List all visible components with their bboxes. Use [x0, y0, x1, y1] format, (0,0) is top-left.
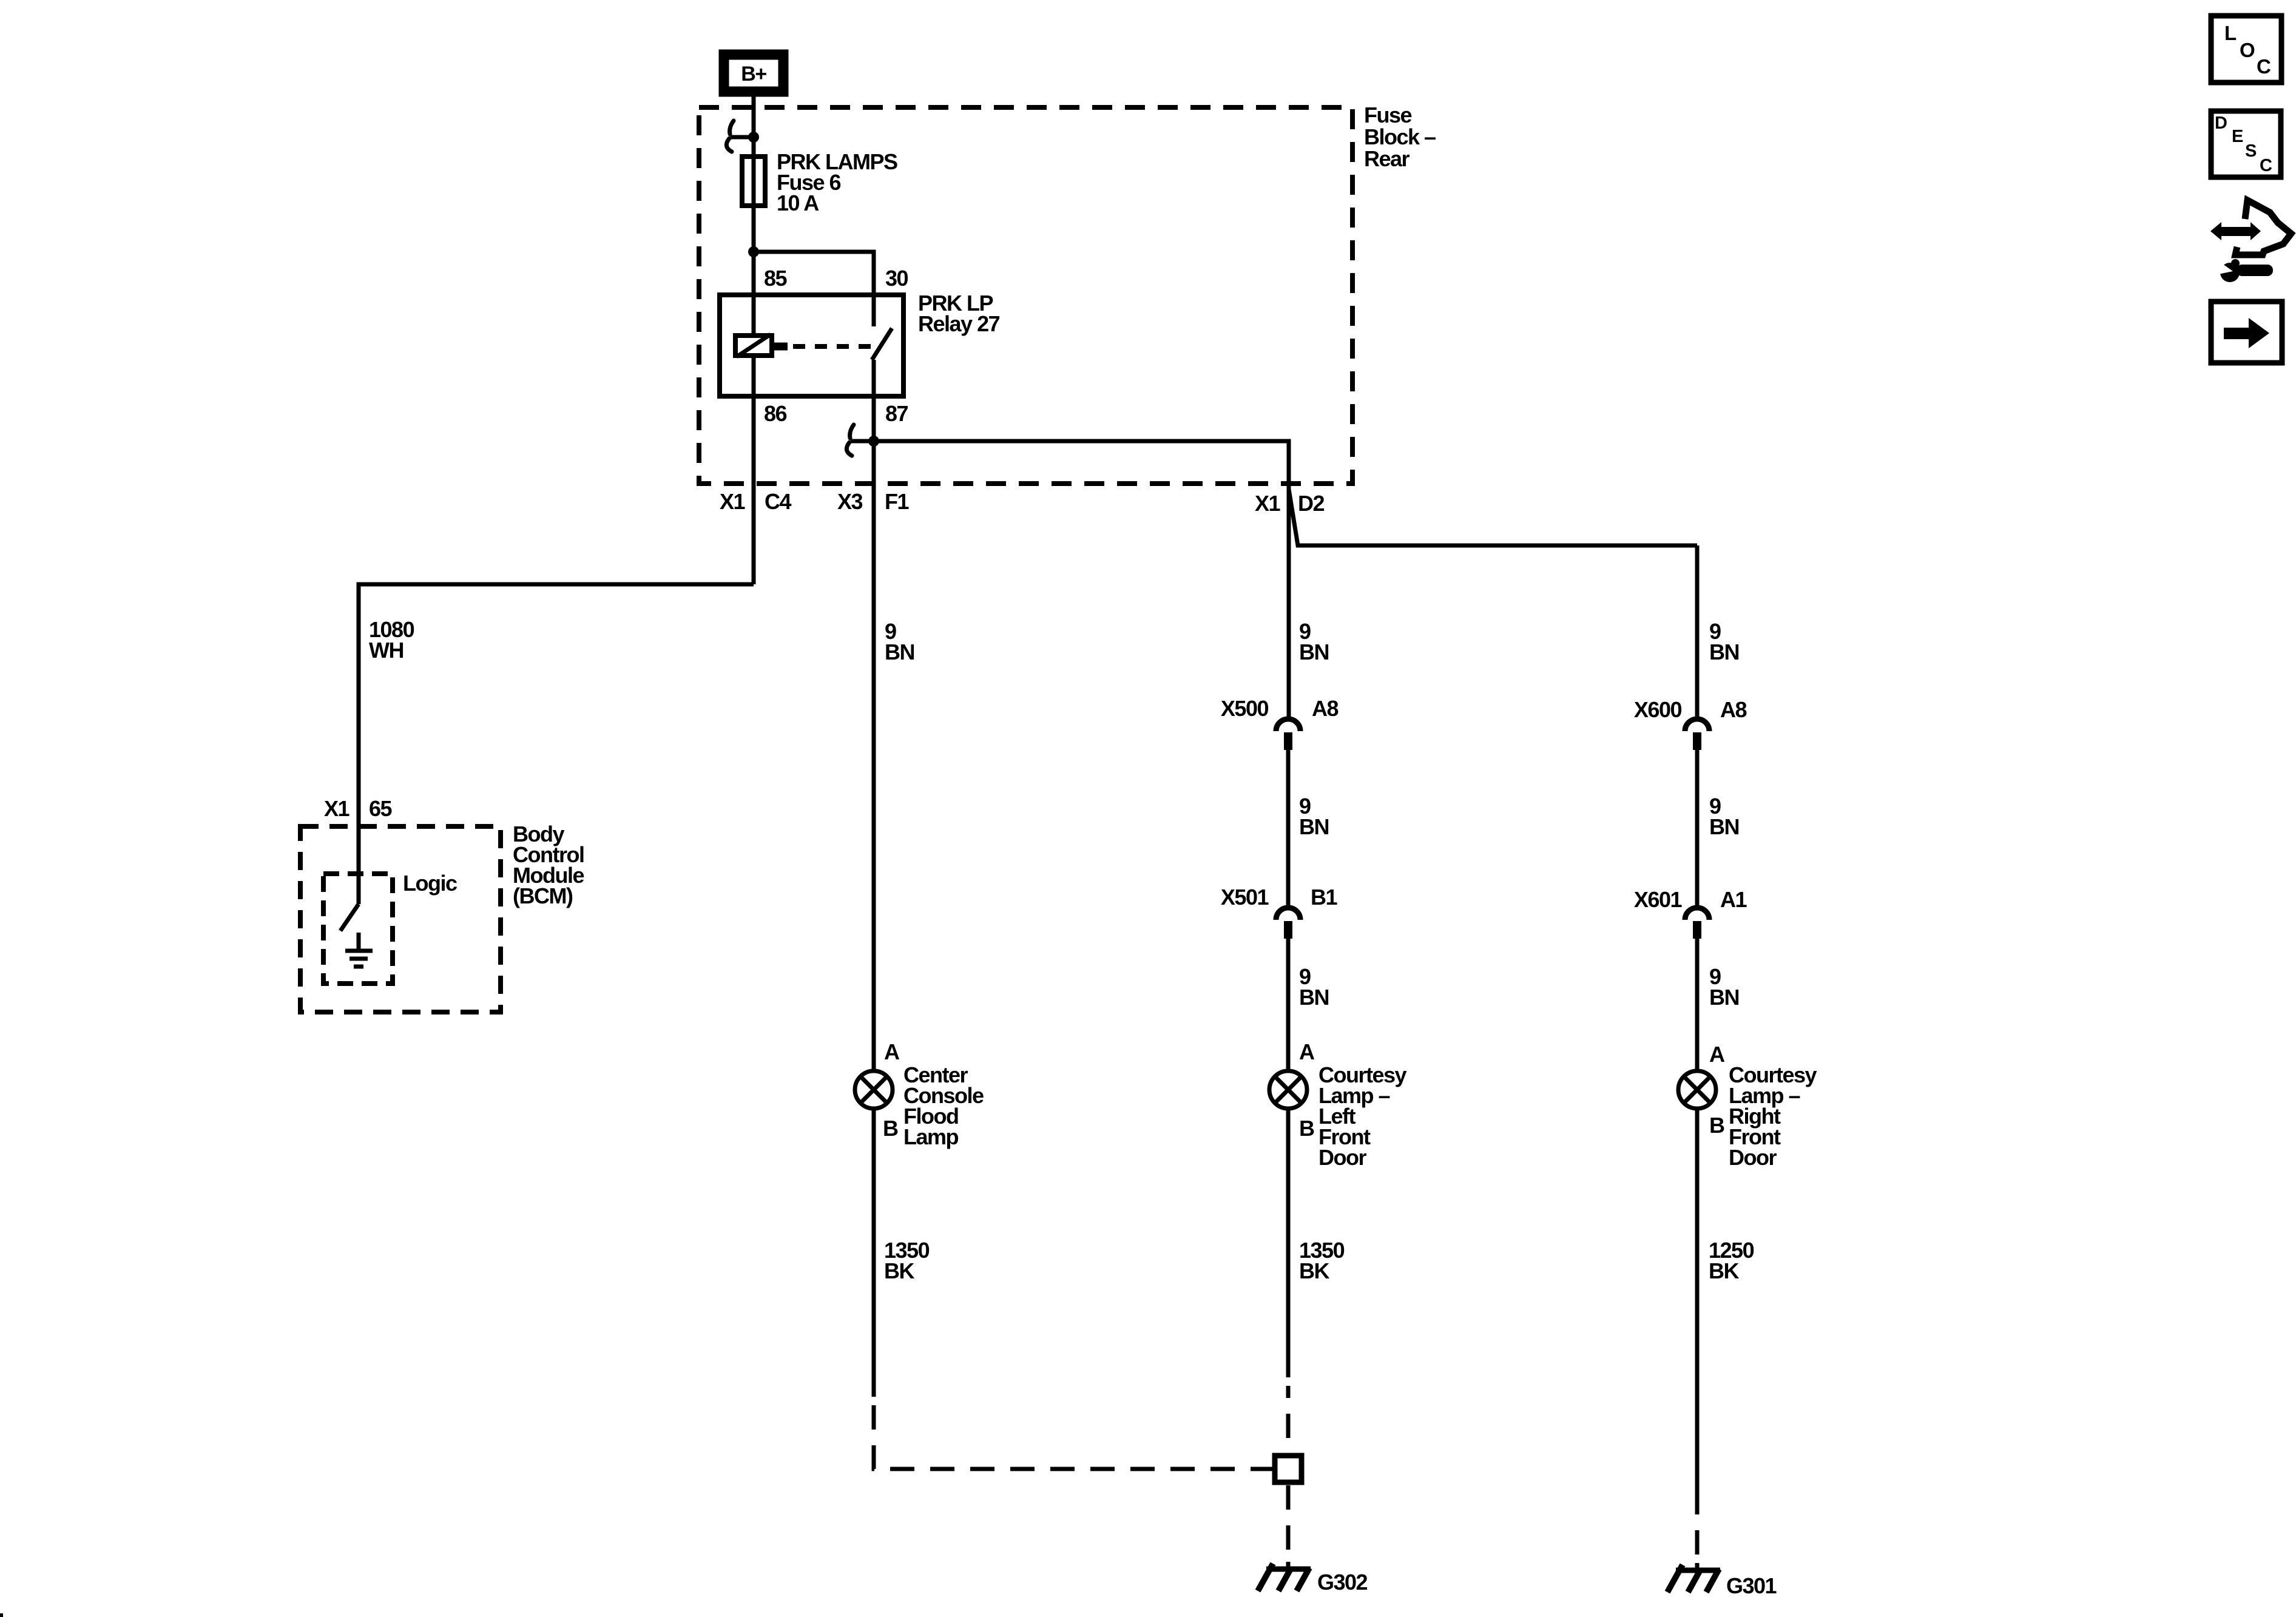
center console flood lamp [855, 1071, 893, 1109]
wire relay pin 87 down [872, 360, 876, 441]
svg-text:Door: Door [1729, 1145, 1777, 1170]
wire X1 C4 down-left to BCM [359, 584, 754, 904]
branch 1: wire F1 down to center console flood lamp [872, 441, 876, 1069]
svg-text:X501: X501 [1221, 885, 1269, 910]
ground G301 [1667, 1563, 1720, 1592]
wire lamp2 down [1286, 1110, 1291, 1377]
dashed wire splice to G302 [1286, 1485, 1291, 1562]
svg-text:(BCM): (BCM) [513, 883, 573, 908]
svg-text:O: O [2240, 39, 2255, 61]
svg-text:BN: BN [1709, 640, 1739, 664]
svg-text:BN: BN [1299, 814, 1329, 839]
svg-text:BN: BN [1709, 814, 1739, 839]
BCM internal ground [345, 933, 373, 967]
wire D2 down to left front door branch [1287, 489, 1291, 717]
svg-text:X3: X3 [837, 489, 863, 514]
svg-text:G302: G302 [1317, 1570, 1368, 1595]
relay switch blade [872, 328, 892, 360]
circuit 9 BN label mid branch3 [1709, 794, 1739, 839]
relay actuation link tab [774, 343, 788, 351]
next-section arrow icon box [2211, 302, 2282, 363]
svg-text:A: A [884, 1039, 900, 1064]
svg-text:E: E [2232, 127, 2243, 146]
courtesy lamp left front door [1269, 1071, 1307, 1109]
svg-text:X500: X500 [1221, 696, 1269, 721]
wire B+ down to fuse [752, 92, 756, 157]
circuit 9 BN label low branch2 [1299, 964, 1329, 1010]
connector X601 A1 labels [1634, 887, 1747, 912]
wire junction to relay pin 30 [754, 252, 874, 326]
svg-text:A: A [1299, 1039, 1315, 1064]
circuit 9 BN label branch1 [885, 619, 914, 664]
circuit 9 BN label low branch3 [1709, 964, 1739, 1010]
BCM switch blade [340, 904, 359, 931]
svg-text:BN: BN [1299, 640, 1329, 664]
svg-text:BN: BN [1709, 985, 1739, 1010]
center console flood lamp name [903, 1062, 984, 1149]
svg-text:65: 65 [369, 796, 393, 821]
junction dot above relay [748, 246, 759, 257]
repair instructions icon (arrow, terminal outline, wrench) [2210, 200, 2291, 282]
fuse block - rear dashed box [699, 107, 1352, 484]
svg-text:BK: BK [1709, 1258, 1739, 1283]
svg-text:BN: BN [885, 640, 914, 664]
circuit 1080 WH label [369, 617, 414, 663]
svg-text:B1: B1 [1311, 885, 1337, 910]
svg-text:A8: A8 [1312, 696, 1338, 721]
circuit 9 BN label above X600 [1709, 619, 1739, 664]
wire fuse to junction [752, 206, 756, 252]
svg-text:Logic: Logic [403, 871, 457, 896]
courtesy lamp right front door [1678, 1071, 1716, 1109]
svg-text:Rear: Rear [1364, 146, 1410, 171]
connector X500 A8 labels [1221, 696, 1339, 721]
svg-text:86: 86 [764, 401, 787, 426]
wire lamp1 down [872, 1110, 876, 1397]
circuit 1250 BK label branch3 [1709, 1238, 1754, 1283]
connector labels X1 C4 / X3 F1 / X1 D2 [720, 489, 1324, 516]
in-line connector X501 [1276, 908, 1300, 939]
junction dot under B+ [748, 132, 759, 143]
in-line connector X500 [1276, 719, 1300, 750]
circuit 1350 BK label branch1 [884, 1238, 930, 1283]
clip terminal at pin 87 [846, 425, 870, 456]
branch 2: circuit 9 BN label above X500 [1299, 619, 1329, 664]
connector X600 A8 labels [1634, 697, 1747, 722]
svg-text:A1: A1 [1720, 887, 1747, 912]
svg-text:L: L [2224, 22, 2237, 44]
svg-text:B+: B+ [741, 62, 766, 86]
svg-text:BK: BK [1299, 1258, 1329, 1283]
fuse block - rear label [1364, 103, 1436, 171]
fuse PRK LAMPS Fuse 6 10A [742, 157, 765, 206]
DESC icon box [2211, 111, 2281, 177]
svg-text:85: 85 [764, 266, 788, 291]
wire X501 to lamp2 [1286, 939, 1291, 1069]
svg-text:D2: D2 [1298, 491, 1324, 516]
relay coil [735, 334, 772, 357]
svg-text:Block –: Block – [1364, 124, 1436, 149]
svg-text:Fuse: Fuse [1364, 103, 1412, 127]
junction dot at pin 87 [868, 436, 879, 447]
BCM pin labels X1 65 [324, 796, 393, 821]
svg-text:A: A [1709, 1042, 1725, 1067]
svg-text:Lamp: Lamp [903, 1124, 959, 1149]
svg-text:87: 87 [885, 401, 908, 426]
wire pin 87 to X1 D2 [874, 441, 1289, 489]
wire junction down through coil (pin 85/86) [752, 252, 756, 334]
clip terminal at B+ feed [726, 121, 750, 152]
svg-text:X1: X1 [324, 796, 350, 821]
wire D2 slant to lamps feed [1289, 489, 1697, 545]
svg-text:B: B [1299, 1116, 1314, 1141]
svg-text:C4: C4 [765, 489, 791, 514]
svg-text:D: D [2215, 113, 2227, 133]
page corner mark [0, 1613, 3, 1617]
logic dashed box [323, 874, 393, 984]
svg-text:Door: Door [1319, 1145, 1366, 1170]
svg-text:Relay 27: Relay 27 [918, 311, 1000, 336]
splice junction block [1275, 1456, 1302, 1482]
circuit 9 BN label mid branch2 [1299, 794, 1329, 839]
svg-text:C: C [2260, 156, 2272, 175]
wire X500 to X501 [1286, 750, 1291, 905]
wire lamp3 down [1695, 1110, 1700, 1490]
svg-text:A8: A8 [1720, 697, 1746, 722]
relay name label [918, 291, 1000, 336]
svg-text:S: S [2245, 141, 2257, 161]
svg-text:BN: BN [1299, 985, 1329, 1010]
svg-text:C: C [2257, 55, 2271, 78]
courtesy lamp right front door name [1729, 1062, 1817, 1170]
wire X601 to lamp3 [1695, 939, 1700, 1069]
svg-text:WH: WH [369, 638, 403, 663]
svg-text:30: 30 [885, 266, 908, 291]
wire X600 to X601 [1695, 750, 1700, 905]
svg-text:B: B [883, 1116, 898, 1141]
svg-text:X601: X601 [1634, 887, 1683, 912]
svg-text:10 A: 10 A [777, 191, 819, 215]
circuit 1350 BK label branch2 [1299, 1238, 1345, 1283]
in-line connector X600 [1685, 719, 1709, 750]
courtesy lamp left front door name [1319, 1062, 1407, 1170]
svg-text:F1: F1 [885, 489, 909, 514]
branch 3: wire feed down to X600 [1695, 545, 1700, 717]
svg-text:X1: X1 [720, 489, 746, 514]
dashed ground wire branch1 [874, 1405, 1272, 1469]
svg-text:G301: G301 [1726, 1573, 1777, 1598]
dashed wire lamp3 to G301 [1695, 1490, 1700, 1563]
battery feed B+ symbol [724, 55, 783, 92]
dashed wire lamp2 to splice [1286, 1386, 1291, 1453]
svg-text:BK: BK [884, 1258, 914, 1283]
relay PRK LP Relay 27 box [720, 295, 903, 396]
LOC icon box [2211, 16, 2281, 83]
in-line connector X601 [1685, 908, 1709, 939]
body control module dashed box [300, 826, 501, 1012]
svg-text:X600: X600 [1634, 697, 1682, 722]
svg-text:X1: X1 [1255, 491, 1281, 516]
svg-text:B: B [1709, 1113, 1724, 1138]
ground G302 [1258, 1562, 1311, 1591]
relay actuation dashed link [793, 344, 875, 349]
BCM name label [513, 822, 584, 908]
connector X501 B1 labels [1221, 885, 1338, 910]
